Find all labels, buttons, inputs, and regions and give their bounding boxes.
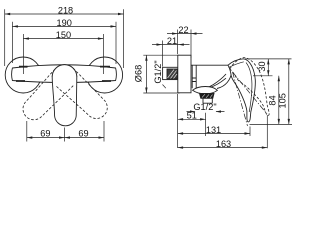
svg-text:218: 218 xyxy=(58,6,73,16)
svg-text:190: 190 xyxy=(57,18,72,28)
svg-text:69: 69 xyxy=(78,128,88,138)
svg-text:163: 163 xyxy=(216,139,231,149)
svg-text:G1/2": G1/2" xyxy=(153,60,163,83)
svg-text:150: 150 xyxy=(56,30,71,40)
svg-text:131: 131 xyxy=(206,125,221,135)
svg-text:Ø68: Ø68 xyxy=(133,65,143,82)
svg-text:105: 105 xyxy=(277,93,287,108)
svg-text:21: 21 xyxy=(167,36,177,46)
svg-text:84: 84 xyxy=(267,95,277,105)
svg-text:69: 69 xyxy=(40,128,50,138)
svg-text:30: 30 xyxy=(257,61,267,71)
svg-text:22: 22 xyxy=(178,25,188,35)
svg-text:51: 51 xyxy=(187,111,197,121)
